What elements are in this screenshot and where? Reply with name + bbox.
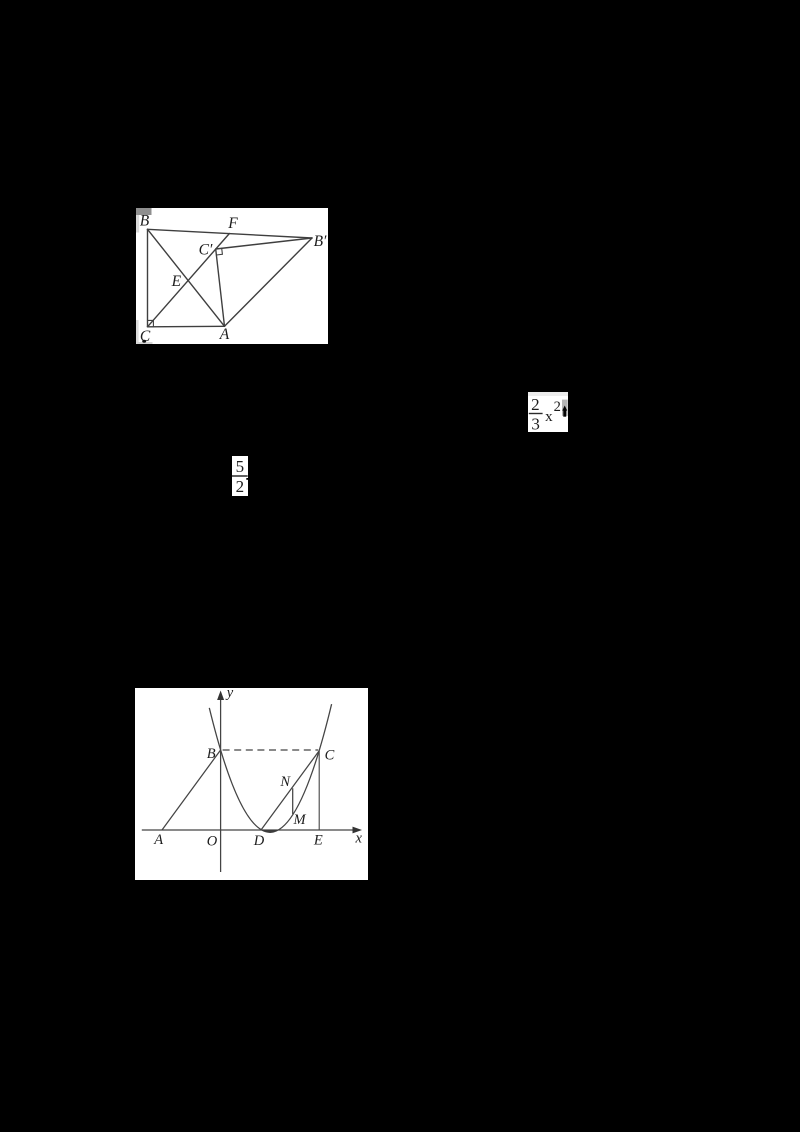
svg-text:B: B [207, 746, 216, 762]
svg-text:E: E [171, 273, 182, 290]
svg-text:F: F [227, 215, 238, 232]
svg-text:E: E [313, 833, 323, 849]
svg-text:B: B [140, 213, 150, 230]
svg-text:2: 2 [236, 477, 245, 496]
svg-text:5: 5 [236, 457, 245, 476]
svg-text:M: M [292, 812, 306, 828]
svg-text:B′: B′ [314, 233, 327, 250]
svg-text:O: O [207, 834, 218, 850]
svg-text:C′: C′ [199, 241, 213, 258]
svg-text:A: A [219, 326, 230, 343]
svg-text:x: x [545, 409, 553, 425]
svg-text:D: D [253, 833, 265, 849]
svg-text:C: C [325, 748, 335, 764]
svg-text:y: y [225, 688, 234, 701]
svg-text:3: 3 [531, 415, 540, 433]
svg-text:A: A [153, 832, 163, 848]
svg-text:N: N [279, 774, 291, 790]
svg-text:2: 2 [531, 395, 540, 414]
svg-text:2: 2 [554, 399, 561, 415]
svg-text:x: x [354, 831, 362, 847]
